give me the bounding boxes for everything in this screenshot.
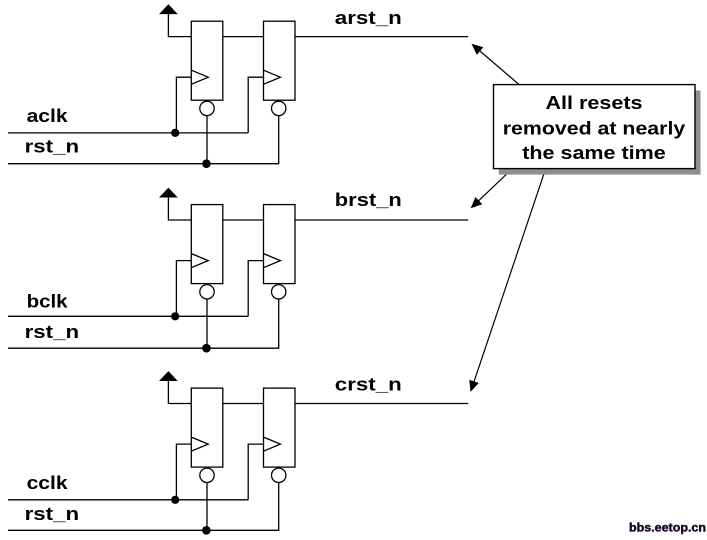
- wire: FF1 Q to FF2 D: [223, 219, 264, 221]
- wire: cclk net line: [8, 499, 248, 501]
- svg-text:aclk: aclk: [27, 106, 69, 126]
- wire: clock branch to FF1 clock pin: [176, 444, 191, 500]
- wire: FF1 bubble to rst_n net: [206, 483, 208, 531]
- annotation box shadow: [499, 90, 701, 174]
- svg-text:bbs.eetop.cn: bbs.eetop.cn: [629, 521, 706, 535]
- junction: rst_n / FF1 reset branch: [202, 344, 211, 353]
- svg-text:crst_n: crst_n: [335, 375, 402, 395]
- VDD tie-high arrow: [160, 372, 176, 381]
- wire: brst_n output net: [295, 219, 468, 221]
- D flip-flop FF1 (aclk domain): [191, 21, 223, 100]
- FF2 clock input triangle: [264, 437, 281, 451]
- wire: clock branch to FF2 clock pin: [248, 444, 263, 500]
- D flip-flop FF1 (bclk domain): [191, 205, 223, 284]
- svg-text:removed at nearly: removed at nearly: [503, 118, 686, 138]
- wire: VDD to FF1 D input: [168, 197, 191, 220]
- D flip-flop FF2 (aclk domain): [264, 21, 296, 100]
- svg-text:the same time: the same time: [522, 143, 666, 163]
- wire: arst_n output net: [295, 36, 468, 38]
- svg-text:bclk: bclk: [27, 291, 69, 311]
- FF1 active-low reset bubble: [200, 285, 214, 299]
- FF1 clock input triangle: [191, 70, 208, 84]
- FF2 clock input triangle: [264, 70, 281, 84]
- FF2 active-low reset bubble: [272, 468, 286, 482]
- wire: clock branch to FF2 clock pin: [248, 261, 263, 317]
- wire: rst_n net line up to FF2 bubble: [8, 116, 279, 164]
- FF1 clock input triangle: [191, 254, 208, 268]
- junction: rst_n / FF1 reset branch: [202, 159, 211, 168]
- FF2 clock input triangle: [264, 254, 281, 268]
- svg-text:arst_n: arst_n: [335, 8, 402, 28]
- annotation arrow to brst_n: [471, 169, 512, 208]
- svg-text:rst_n: rst_n: [25, 137, 80, 157]
- FF1 active-low reset bubble: [200, 101, 214, 115]
- FF1 active-low reset bubble: [200, 468, 214, 482]
- wire: rst_n net line up to FF2 bubble: [8, 483, 279, 531]
- svg-text:All resets: All resets: [546, 93, 643, 113]
- wire: bclk net line: [8, 315, 248, 317]
- annotation arrow to arst_n: [472, 44, 520, 85]
- FF2 active-low reset bubble: [272, 285, 286, 299]
- wire: FF1 bubble to rst_n net: [206, 116, 208, 164]
- svg-text:cclk: cclk: [27, 473, 69, 493]
- D flip-flop FF2 (bclk domain): [264, 205, 296, 284]
- svg-text:rst_n: rst_n: [25, 504, 80, 524]
- svg-text:rst_n: rst_n: [25, 322, 80, 342]
- wire: FF1 Q to FF2 D: [223, 36, 264, 38]
- junction: rst_n / FF1 reset branch: [202, 526, 211, 535]
- wire: clock branch to FF2 clock pin: [248, 77, 263, 133]
- FF2 active-low reset bubble: [272, 101, 286, 115]
- annotation arrow to crst_n: [469, 169, 545, 392]
- wire: FF1 Q to FF2 D: [223, 403, 264, 405]
- D flip-flop FF1 (cclk domain): [191, 388, 223, 467]
- wire: crst_n output net: [295, 403, 468, 405]
- wire: VDD to FF1 D input: [168, 380, 191, 403]
- wire: VDD to FF1 D input: [168, 13, 191, 36]
- svg-text:brst_n: brst_n: [335, 190, 402, 210]
- wire: FF1 bubble to rst_n net: [206, 299, 208, 348]
- FF1 clock input triangle: [191, 437, 208, 451]
- annotation box: All resets removed at nearly the same time: [494, 85, 696, 169]
- D flip-flop FF2 (cclk domain): [264, 388, 296, 467]
- junction: bclk / FF1 clock branch: [171, 312, 179, 320]
- wire: aclk net line: [8, 132, 248, 134]
- VDD tie-high arrow: [160, 5, 176, 14]
- wire: rst_n net line up to FF2 bubble: [8, 299, 279, 348]
- VDD tie-high arrow: [160, 188, 176, 197]
- junction: cclk / FF1 clock branch: [171, 496, 179, 504]
- wire: clock branch to FF1 clock pin: [176, 77, 191, 133]
- wire: clock branch to FF1 clock pin: [176, 261, 191, 317]
- junction: aclk / FF1 clock branch: [171, 129, 179, 137]
